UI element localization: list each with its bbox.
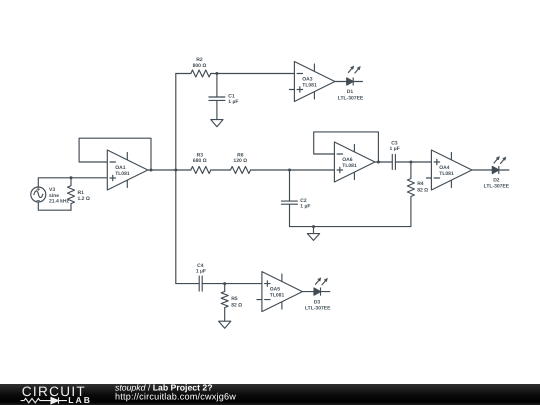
svg-text:82 Ω: 82 Ω <box>231 303 242 309</box>
wire R2 to OA3 <box>211 73 295 75</box>
svg-text:21.4 kHz: 21.4 kHz <box>49 199 70 205</box>
node E (C3/R4 junction) <box>409 161 412 164</box>
footer bar <box>0 384 540 405</box>
op-amp OA6 <box>334 142 375 182</box>
op-amp OA1 <box>107 150 148 190</box>
svg-text:1 µF: 1 µF <box>300 203 310 209</box>
ground under C1 <box>211 120 223 127</box>
node A (V3/R1 junction) <box>70 176 73 179</box>
resistor R5 <box>221 284 228 322</box>
capacitor C3 <box>392 155 411 170</box>
svg-text:LAB: LAB <box>68 395 92 405</box>
svg-text:LTL-307EE: LTL-307EE <box>484 184 510 190</box>
wire R6 to OA6 <box>251 169 335 171</box>
resistor R2 <box>191 70 211 77</box>
op-amp OA3 <box>289 62 335 102</box>
svg-text:1 µF: 1 µF <box>390 146 400 152</box>
wire OA4 output <box>472 169 492 171</box>
wire C3 to OA4 <box>411 161 432 163</box>
node OA1 output tap <box>150 169 153 172</box>
wire OA1 feedback loop <box>79 138 151 170</box>
wire OA6 feedback loop <box>314 132 379 162</box>
svg-text:TL081: TL081 <box>302 82 317 88</box>
wire bottom feedback rail <box>290 226 411 228</box>
svg-text:D3: D3 <box>314 300 321 306</box>
capacitor C2 <box>281 170 297 227</box>
capacitor C4 <box>199 276 225 291</box>
node D (ground tap) <box>312 225 315 228</box>
wire trunk to C4 <box>176 283 199 285</box>
LED D3 <box>314 278 330 295</box>
ground under rail <box>307 227 319 241</box>
voltage source V3 <box>31 187 46 202</box>
node B (R2/C1 junction) <box>215 72 218 75</box>
wire OA3 output <box>335 81 347 83</box>
node trunk/mid junction <box>174 169 177 172</box>
node F (C4/R5 junction) <box>223 282 226 285</box>
svg-text:LTL-307EE: LTL-307EE <box>338 96 364 102</box>
resistor R4 <box>407 162 414 227</box>
svg-text:TL081: TL081 <box>439 171 454 177</box>
wire V3 bottom loop <box>38 202 71 210</box>
resistor R6 <box>231 167 251 174</box>
svg-text:TL081: TL081 <box>115 171 130 177</box>
wire trunk to R2 <box>176 73 191 75</box>
svg-text:1 µF: 1 µF <box>228 99 238 105</box>
svg-text:1 µF: 1 µF <box>196 269 206 275</box>
svg-text:800 Ω: 800 Ω <box>193 63 207 69</box>
svg-text:TL081: TL081 <box>342 163 357 169</box>
node OA6 output tap <box>377 161 380 164</box>
svg-text:120 Ω: 120 Ω <box>233 158 247 164</box>
wire C4 to OA5 <box>225 283 262 285</box>
logo resistor+diode squiggle <box>21 397 67 403</box>
svg-text:82 Ω: 82 Ω <box>417 188 428 194</box>
ground under R5 <box>219 321 231 328</box>
op-amp OA4 <box>426 150 472 190</box>
capacitor C1 <box>209 74 225 120</box>
svg-text:1.2 Ω: 1.2 Ω <box>78 196 90 202</box>
resistor R3 <box>191 167 211 174</box>
wire node to OA1 + input <box>71 177 107 179</box>
node C (R6/C2 junction) <box>288 169 291 172</box>
svg-text:D1: D1 <box>347 89 354 95</box>
svg-text:TL081: TL081 <box>270 292 285 298</box>
LED D1 <box>347 66 363 85</box>
wire trunk vertical <box>175 74 177 284</box>
svg-text:LTL-307EE: LTL-307EE <box>305 306 331 312</box>
LED D2 <box>492 157 509 174</box>
wire OA6 output to C3 <box>375 161 392 163</box>
svg-text:http://circuitlab.com/cwxjg6w: http://circuitlab.com/cwxjg6w <box>115 391 236 401</box>
svg-text:R5: R5 <box>231 296 238 302</box>
svg-text:680 Ω: 680 Ω <box>193 158 207 164</box>
wire OA5 output <box>302 291 314 293</box>
wire OA1 output to trunk <box>148 169 191 171</box>
op-amp OA5 <box>257 272 303 312</box>
svg-text:R4: R4 <box>417 181 424 187</box>
resistor R1 <box>68 178 75 210</box>
wire R3 to R6 <box>211 169 231 171</box>
wire V3 top to node <box>38 178 71 187</box>
